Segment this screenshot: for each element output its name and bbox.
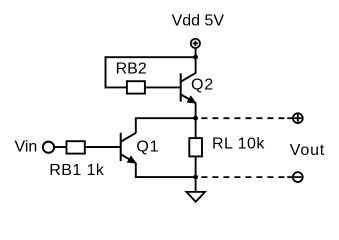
svg-text:Vdd 5V: Vdd 5V bbox=[172, 12, 225, 29]
resistor RB1 bbox=[67, 141, 85, 153]
svg-text:Vin: Vin bbox=[15, 139, 38, 156]
wire RL top stub bbox=[195, 118, 197, 138]
wire Q1 collector stub bbox=[135, 117, 137, 133]
output terminal plus (circled plus) bbox=[293, 113, 303, 123]
wire Vdd terminal to node bbox=[195, 49, 197, 58]
junction output node (Q1 collector / Q2 emitter / RL top) bbox=[193, 116, 198, 121]
svg-text:RB2: RB2 bbox=[116, 61, 147, 78]
wire stub at negative output terminal bbox=[287, 176, 292, 178]
wire bottom rail (Q1 emitter to ground node) bbox=[135, 176, 196, 178]
wire Q1 collector rail bbox=[136, 117, 196, 119]
wire RB2 left vertical bbox=[105, 56, 107, 88]
wire ground stub bbox=[195, 177, 197, 192]
wire RB2 to Q2 base bbox=[145, 86, 180, 88]
wire RL bottom stub bbox=[195, 156, 197, 177]
input terminal Vin (open circle) bbox=[43, 142, 54, 153]
wire dashed to positive output terminal bbox=[201, 117, 286, 119]
svg-text:Q1: Q1 bbox=[136, 139, 159, 156]
wire Vin terminal to RB1 bbox=[55, 146, 67, 148]
svg-text:RB1 1k: RB1 1k bbox=[49, 162, 105, 179]
transistor Q1 bbox=[121, 133, 136, 163]
wire top rail (RB2 top to Vdd node) bbox=[105, 56, 196, 58]
output terminal minus (circled minus) bbox=[293, 172, 303, 182]
resistor RL bbox=[189, 138, 202, 156]
svg-text:Q2: Q2 bbox=[191, 77, 214, 94]
transistor Q2 bbox=[181, 57, 196, 103]
resistor RB2 bbox=[127, 81, 145, 93]
ground bbox=[186, 192, 205, 202]
power terminal Vdd (circled plus) bbox=[191, 39, 200, 48]
wire Q2 emitter to collector node bbox=[195, 103, 197, 119]
wire RB2 loop bottom to resistor bbox=[105, 86, 127, 88]
wire dashed to negative output terminal bbox=[201, 176, 286, 178]
junction Vdd node bbox=[193, 55, 198, 60]
svg-text:Vout: Vout bbox=[290, 142, 325, 159]
svg-text:RL 10k: RL 10k bbox=[212, 135, 265, 152]
wire RB1 to Q1 base bbox=[85, 146, 120, 148]
junction ground node bbox=[193, 175, 198, 180]
wire Q1 emitter stub bbox=[135, 163, 137, 178]
wire stub at positive output terminal bbox=[287, 117, 292, 119]
